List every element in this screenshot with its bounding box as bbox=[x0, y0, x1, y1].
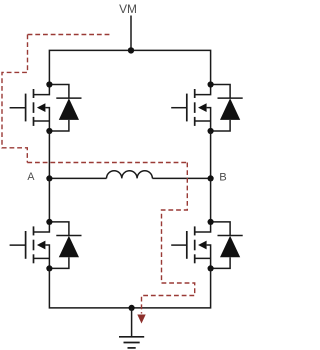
wire VM stub bbox=[130, 16, 132, 51]
wire top rail bbox=[49, 50, 210, 85]
svg-text:B: B bbox=[219, 172, 226, 184]
current path dashed segment: top horizontal near VM bbox=[28, 34, 110, 36]
inductor motor winding L1 bbox=[107, 171, 153, 179]
body diode D4 bbox=[211, 222, 243, 269]
wire inductor to node B bbox=[152, 177, 210, 179]
junction VM dot bbox=[128, 47, 134, 53]
node Q3 source dot bbox=[46, 265, 52, 271]
node A label bbox=[27, 171, 35, 183]
node Q1 drain dot bbox=[46, 81, 52, 87]
node Q2 drain dot bbox=[208, 81, 214, 87]
wire Q2 source to node B bbox=[210, 131, 212, 178]
node Q3 drain dot bbox=[46, 219, 52, 225]
node A dot bbox=[46, 175, 52, 181]
node Q1 source dot bbox=[46, 128, 52, 134]
current path dashed segment: down around Q4 gate bbox=[142, 163, 195, 314]
junction ground dot bbox=[129, 305, 135, 311]
transistor Q4 (low-side right) bbox=[171, 222, 210, 269]
current path arrowhead at ground bbox=[137, 315, 145, 324]
node VM label bbox=[119, 2, 137, 16]
body diode D3 bbox=[49, 222, 81, 269]
node B dot bbox=[208, 175, 214, 181]
wire node A to inductor bbox=[49, 177, 106, 179]
node Q2 source dot bbox=[208, 128, 214, 134]
wire node A to Q3 drain bbox=[48, 178, 50, 222]
node Q4 source dot bbox=[208, 265, 214, 271]
wire bottom rail bbox=[49, 268, 210, 308]
node B label bbox=[219, 172, 226, 184]
transistor Q1 (high-side left) bbox=[10, 85, 50, 132]
transistor Q2 (high-side right) bbox=[171, 85, 210, 132]
node Q4 drain dot bbox=[208, 219, 214, 225]
current path dashed segment: horizontal across to right bbox=[27, 162, 187, 164]
ground bbox=[119, 308, 144, 348]
body diode D1 bbox=[49, 85, 81, 132]
svg-text:A: A bbox=[27, 171, 35, 183]
current path dashed segment: down left of Q1 gate bbox=[2, 35, 28, 163]
svg-text:VM: VM bbox=[119, 2, 137, 16]
wire Q1 source to node A bbox=[48, 131, 50, 178]
wire node B to Q4 drain bbox=[210, 178, 212, 222]
transistor Q3 (low-side left) bbox=[10, 222, 50, 269]
body diode D2 bbox=[211, 85, 243, 132]
